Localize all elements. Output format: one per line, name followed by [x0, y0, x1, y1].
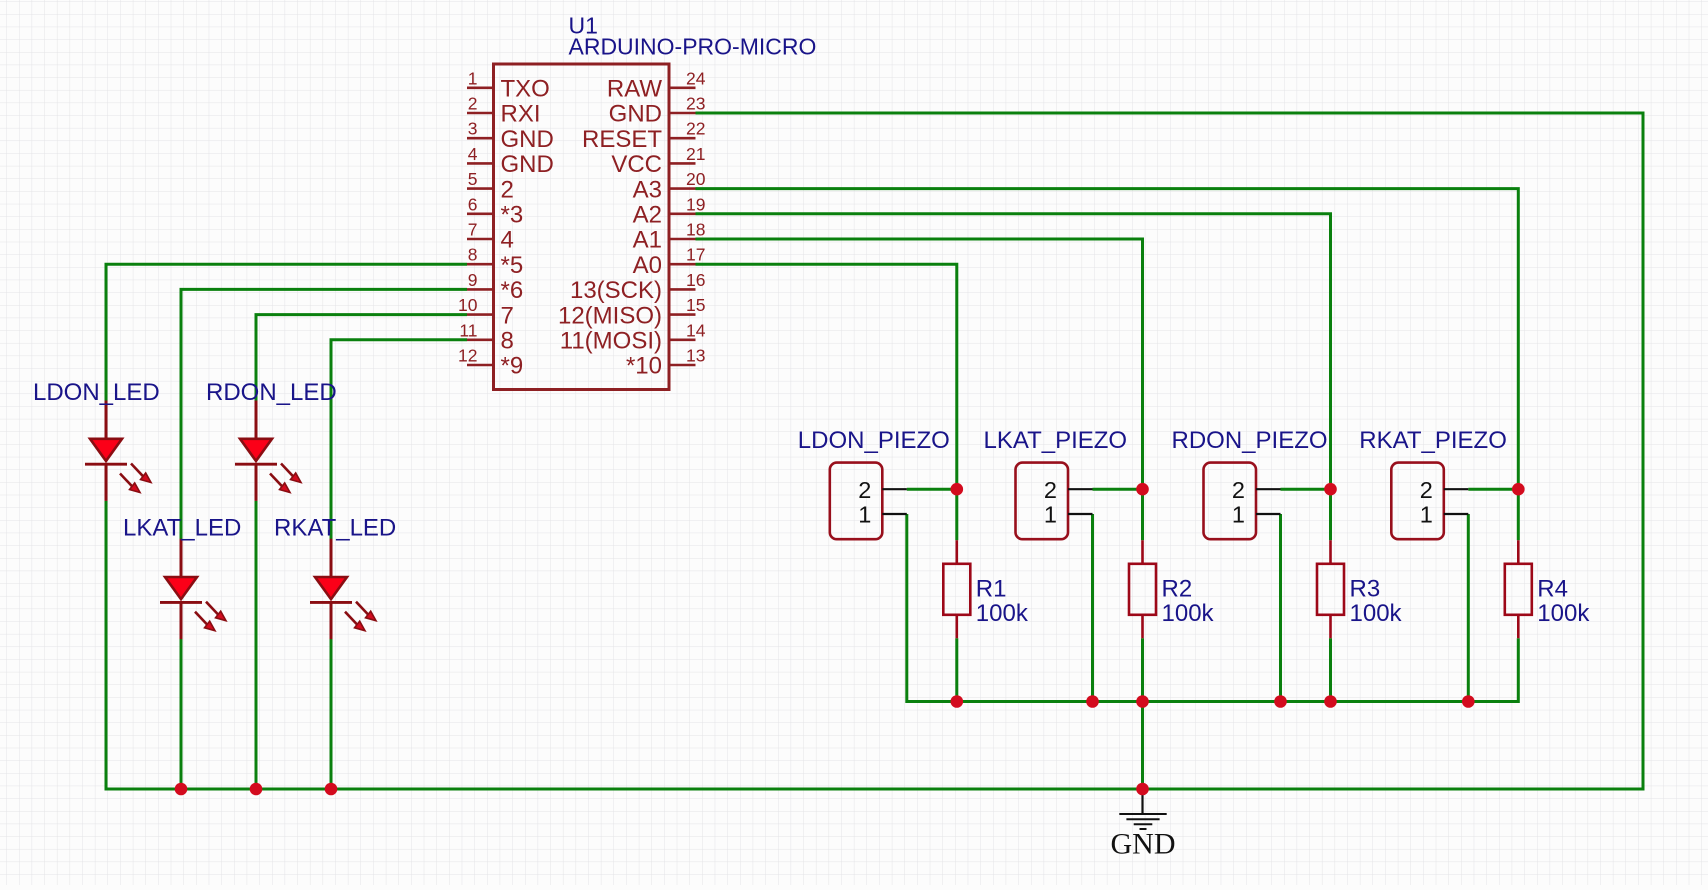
svg-text:11(MOSI): 11(MOSI): [560, 328, 662, 355]
svg-text:*3: *3: [501, 202, 524, 229]
svg-text:RXI: RXI: [501, 101, 541, 128]
svg-text:R2: R2: [1162, 576, 1193, 603]
svg-text:TXO: TXO: [501, 76, 550, 103]
svg-text:GND: GND: [501, 126, 554, 153]
svg-text:2: 2: [858, 477, 871, 503]
svg-text:8: 8: [468, 245, 478, 265]
svg-text:100k: 100k: [976, 600, 1029, 627]
svg-text:4: 4: [501, 227, 514, 254]
svg-text:1: 1: [468, 68, 478, 88]
svg-text:RDON_PIEZO: RDON_PIEZO: [1172, 427, 1328, 454]
svg-text:100k: 100k: [1162, 600, 1215, 627]
svg-text:22: 22: [686, 119, 705, 139]
svg-text:R3: R3: [1350, 576, 1381, 603]
svg-text:13(SCK): 13(SCK): [570, 277, 662, 304]
svg-text:10: 10: [458, 295, 478, 315]
svg-text:A3: A3: [633, 176, 662, 203]
svg-text:*10: *10: [626, 353, 662, 380]
svg-text:LDON_LED: LDON_LED: [33, 379, 160, 406]
svg-text:21: 21: [686, 144, 705, 164]
svg-text:1: 1: [1044, 502, 1057, 528]
svg-text:VCC: VCC: [611, 151, 662, 178]
svg-text:A1: A1: [633, 227, 662, 254]
svg-text:RDON_LED: RDON_LED: [206, 379, 337, 406]
svg-text:A0: A0: [633, 252, 662, 279]
svg-text:18: 18: [686, 220, 705, 240]
svg-text:1: 1: [1420, 502, 1433, 528]
svg-text:LKAT_LED: LKAT_LED: [123, 515, 241, 542]
svg-text:7: 7: [501, 302, 514, 329]
svg-text:100k: 100k: [1537, 600, 1590, 627]
svg-text:12(MISO): 12(MISO): [558, 302, 662, 329]
svg-text:R4: R4: [1537, 576, 1568, 603]
svg-text:23: 23: [686, 94, 705, 114]
svg-text:A2: A2: [633, 202, 662, 229]
svg-text:RKAT_LED: RKAT_LED: [274, 515, 396, 542]
svg-text:*6: *6: [501, 277, 524, 304]
svg-text:LKAT_PIEZO: LKAT_PIEZO: [984, 427, 1128, 454]
svg-text:LDON_PIEZO: LDON_PIEZO: [798, 427, 950, 454]
svg-text:5: 5: [468, 169, 478, 189]
svg-text:2: 2: [1420, 477, 1433, 503]
svg-text:2: 2: [1232, 477, 1245, 503]
svg-text:16: 16: [686, 270, 705, 290]
svg-text:RKAT_PIEZO: RKAT_PIEZO: [1359, 427, 1507, 454]
svg-text:11: 11: [459, 320, 477, 340]
svg-text:GND: GND: [1111, 828, 1176, 861]
svg-text:1: 1: [1232, 502, 1245, 528]
svg-text:2: 2: [468, 94, 478, 114]
svg-text:9: 9: [468, 270, 478, 290]
svg-text:*9: *9: [501, 353, 524, 380]
svg-text:*5: *5: [501, 252, 524, 279]
svg-text:14: 14: [686, 320, 706, 340]
svg-text:13: 13: [686, 346, 705, 366]
svg-text:100k: 100k: [1350, 600, 1403, 627]
svg-text:GND: GND: [609, 101, 662, 128]
svg-text:6: 6: [468, 194, 478, 214]
svg-text:RAW: RAW: [607, 76, 662, 103]
svg-text:12: 12: [458, 346, 477, 366]
svg-text:RESET: RESET: [582, 126, 662, 153]
svg-text:17: 17: [686, 245, 705, 265]
svg-text:3: 3: [468, 119, 478, 139]
svg-text:1: 1: [858, 502, 871, 528]
svg-text:R1: R1: [976, 576, 1007, 603]
svg-text:ARDUINO-PRO-MICRO: ARDUINO-PRO-MICRO: [569, 34, 817, 60]
svg-text:GND: GND: [501, 151, 554, 178]
svg-text:15: 15: [686, 295, 705, 315]
svg-text:24: 24: [686, 68, 706, 88]
svg-text:2: 2: [501, 176, 514, 203]
svg-text:8: 8: [501, 328, 514, 355]
svg-text:4: 4: [468, 144, 478, 164]
svg-text:2: 2: [1044, 477, 1057, 503]
svg-text:20: 20: [686, 169, 706, 189]
svg-text:7: 7: [468, 220, 478, 240]
svg-text:19: 19: [686, 194, 705, 214]
